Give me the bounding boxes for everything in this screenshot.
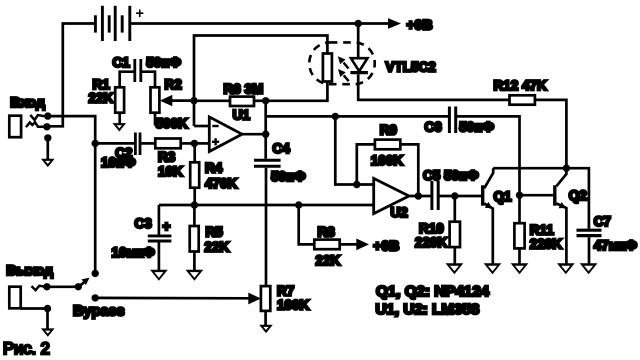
wire Q2 base line — [520, 194, 554, 197]
ground below C7 — [580, 263, 598, 274]
svg-text:R12 47K: R12 47K — [494, 78, 548, 93]
ground below output jack — [41, 328, 55, 336]
svg-text:R4: R4 — [205, 161, 223, 176]
svg-text:+9В: +9В — [373, 237, 399, 253]
wire R8 right to arrow — [340, 243, 357, 246]
svg-text:R6 3M: R6 3M — [224, 82, 264, 97]
resistor R11 body — [514, 223, 524, 248]
op-amp U1 — [209, 117, 242, 152]
resistor R7 body — [261, 286, 270, 311]
node U2 output / R9 / C5 — [415, 192, 422, 199]
feedback loop R9 wires — [357, 144, 419, 196]
svg-text:C1: C1 — [113, 55, 131, 70]
ground below C3 — [150, 270, 168, 281]
wire C4 bottom to R7 top — [265, 168, 268, 286]
svg-text:500K: 500K — [156, 116, 189, 131]
wire R5 bottom to ground — [193, 252, 196, 271]
capacitor C1 plates — [135, 59, 141, 82]
svg-text:50нФ: 50нФ — [146, 55, 181, 70]
svg-text:220K: 220K — [530, 236, 563, 251]
resistor R6 body — [230, 97, 254, 106]
ground below R10 — [446, 263, 464, 274]
svg-text:R7: R7 — [277, 283, 294, 298]
svg-text:50нФ: 50нФ — [271, 169, 306, 184]
wire U2 noninverting branch — [335, 116, 373, 184]
capacitor C6 plates — [449, 107, 455, 134]
svg-text:10K: 10K — [158, 164, 183, 179]
wire U1 feedback tee to C6 — [266, 115, 448, 118]
svg-text:Выход: Выход — [6, 262, 53, 278]
arrow +9V at R8 — [356, 239, 369, 251]
node switch throw signal — [92, 270, 99, 277]
wire C5 right to Q1 base — [440, 195, 482, 198]
wire U1 output — [242, 133, 266, 136]
node input sleeve — [44, 134, 51, 141]
capacitor C4 plates — [254, 160, 281, 166]
wire R2 top to C1 right plate — [142, 72, 155, 88]
svg-text:R8: R8 — [318, 224, 336, 239]
wire U2 plus input / bias line — [159, 204, 374, 207]
wire R4 top lead — [193, 143, 196, 162]
resistor R1 body — [115, 87, 124, 112]
wire U1 plus input stub — [194, 142, 210, 145]
output jack body — [9, 287, 20, 309]
wire R6 left lead — [194, 99, 230, 102]
input jack ring contact squiggle — [26, 122, 44, 127]
svg-text:R5: R5 — [206, 225, 224, 240]
svg-text:+: + — [136, 6, 144, 22]
node feedback / U2 input — [353, 181, 360, 188]
wire LED cathode to R12 — [358, 74, 509, 100]
svg-text:C6: C6 — [425, 120, 443, 135]
resistor R8 body — [314, 240, 339, 250]
wire bias to C3 — [158, 205, 161, 235]
node bias R4 R5 — [191, 201, 198, 208]
optocoupler VTL5C2 dashed ellipse — [309, 42, 374, 84]
svg-text:+9В: +9В — [407, 16, 433, 32]
wire R10 top lead — [453, 196, 456, 222]
wire U1 inverting node to photoresistor top — [194, 36, 327, 127]
wire U2 output — [409, 195, 431, 198]
output jack tip squiggle — [32, 286, 45, 291]
svg-text:220K: 220K — [415, 235, 448, 250]
resistor R3 body — [155, 139, 180, 149]
ground below R11 — [511, 263, 529, 274]
wire feedback vertical — [264, 101, 267, 159]
svg-text:100K: 100K — [277, 298, 310, 313]
capacitor C5 plates — [432, 181, 438, 210]
wire LED anode drop — [357, 24, 360, 59]
capacitor C2 plates — [135, 133, 140, 156]
node R2 wiper / R6 / U1 inverting — [190, 97, 197, 104]
svg-text:Bypass: Bypass — [73, 304, 125, 320]
wire R2 wiper to node — [172, 99, 195, 102]
capacitor C7 plates — [577, 230, 602, 235]
wire +9V rail — [130, 22, 390, 25]
wire bias node to R8 — [299, 205, 315, 244]
LED light arrow 1 — [338, 56, 349, 68]
svg-text:+: + — [163, 219, 171, 234]
wire C1 left to R1 top — [120, 72, 134, 88]
svg-text:Q2: Q2 — [569, 188, 587, 203]
wire R11 bottom to ground — [518, 248, 521, 263]
svg-text:Q1, Q2: NP4124: Q1, Q2: NP4124 — [376, 283, 490, 300]
node switch throw bypass — [92, 294, 99, 301]
resistor R12 body — [510, 95, 535, 104]
op-amp U2 — [374, 178, 409, 213]
wire output tip to switch pole — [47, 285, 78, 288]
ground below Q2 emitter — [557, 263, 575, 274]
battery GB1 — [95, 6, 129, 41]
wire C2 node to bypass contact — [94, 143, 97, 273]
svg-text:47мкФ: 47мкФ — [594, 238, 638, 253]
node switch pole — [75, 283, 82, 290]
node bias R8 — [295, 201, 302, 208]
node output sleeve — [44, 305, 51, 312]
node R3 / R4 / U1 plus — [191, 140, 198, 147]
svg-text:C3: C3 — [135, 216, 153, 231]
transistor Q2 — [555, 168, 567, 264]
wire R12 right to collector node — [535, 100, 567, 168]
optocoupler photoresistor body — [323, 54, 332, 82]
wire C6 right to Q2 base node — [457, 116, 520, 223]
svg-text:C4: C4 — [273, 141, 291, 156]
node C5 / R10 / Q1 base — [451, 192, 458, 199]
node Q2 base / R11 — [516, 192, 523, 199]
resistor R5 body — [190, 226, 199, 252]
wire R6 right lead — [254, 99, 266, 102]
wire C7 bottom to ground — [588, 237, 591, 264]
input jack body — [9, 116, 21, 138]
wire R1 bottom to ground — [118, 113, 121, 124]
svg-text:22K: 22K — [316, 253, 341, 268]
resistor R10 body — [450, 222, 460, 247]
ground below R1 — [113, 123, 127, 131]
wire R3 right to U1 plus node — [181, 142, 195, 145]
svg-text:50нФ: 50нФ — [459, 120, 494, 135]
wire collector rail to C7 — [493, 168, 589, 228]
ground below R5 — [186, 270, 204, 281]
wire input tip to C2 node — [48, 116, 95, 143]
svg-text:R9: R9 — [380, 123, 397, 138]
wire C2 right to R3 — [141, 142, 155, 145]
resistor R9 body — [375, 140, 400, 150]
wire input sleeve to ground — [46, 138, 49, 159]
transistor Q1 — [483, 168, 494, 264]
arrow +9V — [388, 18, 401, 29]
svg-text:100K: 100K — [371, 153, 404, 168]
arrowhead R2 wiper — [160, 95, 173, 106]
wire C3 bottom to ground — [158, 242, 161, 270]
ground below R7 — [259, 325, 273, 333]
wire photoresistor bottom to R6 node — [266, 82, 328, 101]
resistor R4 body — [190, 162, 199, 187]
svg-text:Q1: Q1 — [494, 189, 513, 204]
LED light arrow 2 — [338, 69, 349, 81]
node tee to U2 — [332, 113, 339, 120]
switch arm with arrow — [78, 278, 89, 287]
wire U1 inverting input stub — [194, 125, 210, 128]
svg-text:Рис. 2: Рис. 2 — [3, 340, 50, 358]
wire battery negative to input jack ring — [48, 24, 95, 127]
LED D1 — [350, 58, 368, 72]
wire bypass to R7 wiper — [95, 297, 249, 300]
node C2 junction — [92, 140, 99, 147]
ground below Q1 emitter — [484, 263, 502, 274]
node +9V rail / LED branch — [355, 20, 362, 27]
svg-text:R3: R3 — [158, 149, 176, 164]
svg-text:22K: 22K — [205, 240, 230, 255]
wire R10 bottom to ground — [453, 247, 456, 264]
wire output sleeve — [21, 309, 48, 329]
wire R4 bottom lead — [193, 188, 196, 205]
ground below input jack — [41, 159, 55, 167]
svg-text:U1: U1 — [233, 108, 251, 123]
svg-text:R2: R2 — [165, 77, 182, 92]
node input tip — [44, 112, 51, 119]
svg-text:470K: 470K — [205, 176, 238, 191]
input jack tip contact squiggle — [30, 115, 44, 120]
svg-text:U1, U2: LM358: U1, U2: LM358 — [376, 301, 480, 318]
svg-text:C7: C7 — [594, 214, 611, 229]
svg-text:C5 50нФ: C5 50нФ — [423, 168, 479, 183]
wire C2 node to C2 left plate — [95, 142, 134, 145]
capacitor C3 plates — [148, 236, 172, 241]
svg-text:22K: 22K — [89, 91, 114, 106]
svg-text:Вход: Вход — [10, 94, 45, 110]
node R6 right / photoresistor — [262, 97, 269, 104]
wire R7 bottom to ground — [264, 311, 267, 325]
resistor R2 body — [151, 87, 160, 112]
svg-text:10нФ: 10нФ — [101, 155, 136, 170]
svg-text:U2: U2 — [391, 205, 408, 220]
node collectors / R12 / C7 — [563, 164, 570, 171]
node input ring — [43, 123, 50, 130]
node output tip — [43, 283, 50, 290]
svg-text:10мкФ: 10мкФ — [112, 245, 156, 260]
wire R2 bottom stub — [154, 113, 157, 126]
svg-text:VTL5C2: VTL5C2 — [386, 60, 436, 75]
node U1 output — [262, 131, 269, 138]
wire R5 top lead — [193, 205, 196, 226]
svg-text:R1: R1 — [93, 77, 111, 92]
arrowhead R7 wiper — [248, 293, 261, 305]
